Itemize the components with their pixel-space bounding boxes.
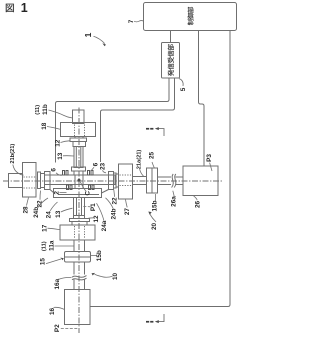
right shaft with break 26a	[158, 177, 184, 185]
motor box 26	[183, 166, 218, 196]
control unit box 7	[144, 3, 237, 31]
svg-text:25: 25	[148, 152, 155, 160]
vertical axis centerline	[78, 108, 80, 334]
right coupling plate	[116, 174, 119, 187]
svg-text:1: 1	[21, 1, 28, 15]
P1 dash-dot leader	[81, 205, 91, 208]
motor box 16	[65, 290, 91, 325]
svg-text:26: 26	[194, 201, 201, 209]
svg-text:P1: P1	[90, 203, 97, 211]
center gear housing 2	[54, 189, 102, 198]
svg-text:15b: 15b	[96, 250, 103, 261]
svg-text:16: 16	[49, 308, 56, 316]
svg-text:15b: 15b	[152, 200, 159, 211]
svg-text:21b(21): 21b(21)	[10, 144, 16, 164]
svg-text:2: 2	[54, 191, 61, 195]
svg-text:1: 1	[83, 32, 93, 37]
svg-text:C: C	[84, 191, 91, 196]
lower coupling 12	[74, 216, 85, 219]
wire transceiver to sensor 23	[101, 78, 175, 162]
svg-text:22: 22	[112, 197, 119, 205]
section marker II bottom: text	[146, 321, 149, 323]
svg-text:P3: P3	[206, 154, 213, 162]
svg-text:24a: 24a	[101, 220, 108, 231]
svg-text:24b: 24b	[33, 207, 40, 218]
arrow of label 10	[95, 274, 113, 277]
lower unit box 17	[60, 225, 95, 240]
svg-text:12: 12	[93, 215, 100, 223]
svg-text:16a: 16a	[54, 278, 61, 289]
beam left end cap	[45, 172, 51, 190]
upper coupling 12	[75, 137, 83, 139]
arrow of label 20	[150, 214, 156, 222]
section marker II middle: text	[146, 128, 149, 130]
figure title 図1	[6, 4, 14, 12]
shaft to motor with break 16a	[74, 262, 85, 290]
left gearbox 28	[23, 163, 37, 198]
wire transceiver to left sensor 6	[56, 78, 170, 163]
shaft 11a	[74, 240, 85, 252]
P2 dashed leader	[61, 327, 78, 329]
coupling 25 plates	[147, 168, 153, 193]
svg-text:13: 13	[57, 152, 64, 160]
svg-text:(11): (11)	[42, 241, 48, 251]
svg-text:28: 28	[23, 206, 30, 214]
svg-text:6: 6	[92, 162, 99, 166]
wire controller to transceiver	[170, 31, 172, 43]
gear pair 6 left	[63, 171, 65, 176]
section marker II bottom: arrow and corner	[157, 314, 164, 322]
right shaft 21a	[133, 177, 147, 185]
svg-text:11a: 11a	[48, 240, 55, 251]
svg-text:6: 6	[51, 168, 58, 172]
lower shaft 13	[74, 198, 85, 216]
svg-text:22: 22	[36, 200, 43, 208]
svg-text:26a: 26a	[170, 196, 177, 207]
arrow of label 1	[94, 36, 105, 43]
wire controller to motor 26	[199, 31, 205, 166]
svg-text:13: 13	[55, 210, 62, 218]
wire controller to motor 16	[90, 31, 230, 307]
svg-text:23: 23	[99, 163, 106, 171]
arrow of label 15	[46, 259, 61, 264]
svg-text:11b: 11b	[42, 104, 49, 115]
lower gear marks left	[67, 185, 69, 190]
controller text 制御部	[188, 19, 194, 25]
svg-text:5: 5	[180, 87, 187, 91]
beam right end cap	[109, 172, 114, 190]
svg-text:12: 12	[55, 139, 62, 147]
coupling 15	[65, 252, 91, 263]
upper shaft lower flange	[72, 167, 86, 171]
vertical shaft crossing beam	[75, 175, 83, 189]
left shaft stub 21b	[9, 174, 23, 188]
section marker II middle: arrow and corner	[157, 129, 164, 136]
upper shaft stub 11b	[73, 110, 85, 124]
svg-text:7: 7	[128, 19, 135, 23]
svg-text:15: 15	[39, 258, 46, 266]
svg-text:17: 17	[42, 224, 49, 232]
upper unit box 18	[61, 123, 96, 137]
transmit-receive unit box 5	[162, 43, 180, 79]
svg-text:18: 18	[41, 122, 48, 130]
upper shaft 13	[74, 147, 83, 168]
coupling 22 left plates	[38, 172, 41, 189]
svg-text:P2: P2	[54, 324, 61, 332]
center node C dot	[78, 179, 81, 182]
svg-text:21a(21): 21a(21)	[137, 150, 143, 170]
transceiver text 発信受信部	[168, 70, 174, 76]
svg-text:20: 20	[151, 223, 158, 231]
svg-text:24b: 24b	[110, 208, 117, 219]
svg-text:24: 24	[46, 211, 53, 219]
horizontal beam housing	[45, 175, 116, 185]
lower gear marks right	[89, 185, 91, 190]
gear pair 6 right	[88, 171, 90, 176]
horizontal axis centerline	[3, 180, 223, 182]
right bearing box 27	[119, 164, 133, 199]
svg-text:(11): (11)	[35, 105, 41, 115]
svg-text:10: 10	[112, 273, 119, 281]
svg-text:27: 27	[124, 208, 131, 216]
